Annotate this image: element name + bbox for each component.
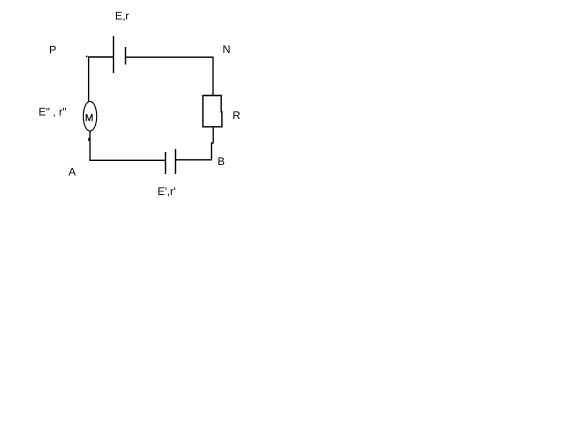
svg-text:P: P (49, 45, 56, 57)
wire battery to node N (126, 56, 214, 58)
svg-text:B: B (218, 156, 225, 168)
svg-text:E" , r": E" , r" (39, 106, 67, 118)
wire P corner to battery long plate (88, 56, 114, 58)
battery E',r' right plate (175, 149, 177, 174)
svg-text:E',r': E',r' (158, 186, 176, 198)
motor M (83, 101, 96, 131)
wire node B to battery E',r' right plate (176, 159, 212, 161)
svg-text:A: A (69, 167, 77, 179)
battery E',r' left plate (165, 152, 167, 174)
svg-text:E,r: E,r (115, 11, 129, 23)
resistor R (203, 95, 222, 127)
junction dot near P (86, 56, 88, 58)
svg-text:N: N (223, 44, 231, 56)
wire node N down to resistor (212, 57, 214, 96)
svg-text:M: M (85, 113, 93, 124)
wire node A up to motor (89, 131, 91, 160)
wire resistor to node B (with jog) (212, 127, 214, 160)
svg-text:R: R (233, 110, 241, 122)
battery E,r short plate (125, 47, 127, 65)
battery E,r long plate (113, 36, 115, 73)
wire battery E',r' to node A (89, 159, 165, 161)
wire motor up to node P corner (88, 57, 90, 101)
junction dot on motor wire (88, 138, 90, 141)
